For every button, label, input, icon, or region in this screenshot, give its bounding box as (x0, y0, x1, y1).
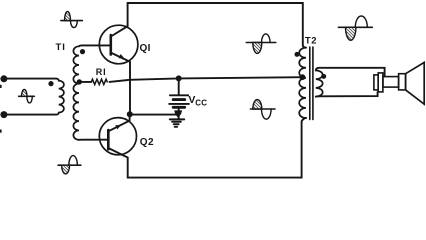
Q1 emitter (111, 53, 130, 114)
waveform W2 (input) baseline (19, 95, 35, 97)
speaker voice coil plate 1 (374, 75, 378, 90)
speaker horn cone (406, 62, 425, 104)
wire VCC node down (178, 78, 180, 95)
waveform W6 (bottom left) baseline (58, 164, 81, 166)
waveform W2 negative half (27, 96, 33, 103)
scan speck left edge lower (0, 130, 2, 133)
emitters junction dot (127, 111, 133, 117)
waveform W4 negative half (hatched) (346, 27, 356, 40)
waveform W1 negative half (71, 21, 78, 28)
transformer T1 primary winding (56, 79, 64, 115)
battery VCC (170, 94, 188, 96)
T1 primary phasing dot (48, 81, 53, 86)
waveform W3 positive half (262, 34, 271, 43)
waveform W5 negative half (262, 109, 272, 119)
waveform W4 positive half (355, 16, 367, 27)
svg-text:RI: RI (96, 67, 107, 77)
Q2 emitter arrow (115, 125, 121, 129)
wire input bottom (4, 114, 56, 116)
transistor Q2 (99, 118, 136, 155)
VCC node junction dot (176, 75, 182, 81)
T1 secondary phasing dot (80, 49, 85, 54)
Q1 collector (111, 3, 128, 37)
Q2 base bar (107, 130, 110, 149)
wire T2 secondary top to speaker (316, 68, 385, 77)
waveform W5 (lower middle) baseline (250, 108, 275, 110)
waveform W1 (top left) baseline (61, 20, 82, 22)
transformer T2 secondary winding (316, 70, 323, 96)
waveform W4 (top right) baseline (338, 26, 372, 28)
Q1 base bar (110, 35, 113, 55)
svg-text:TI: TI (56, 42, 66, 53)
wire emitters to ground node (130, 114, 179, 116)
scan speck left edge upper (0, 85, 2, 88)
wire T2 secondary bottom to speaker (316, 92, 378, 97)
transformer T1 secondary winding (73, 46, 79, 140)
Q1 emitter arrow (119, 54, 125, 58)
battery/ground junction arrow blob (174, 110, 182, 117)
svg-text:QI: QI (140, 43, 151, 54)
top rail wire (Q1 collector to T2) (128, 3, 306, 48)
transistor Q1 (99, 25, 138, 64)
input terminal bottom (0, 111, 7, 118)
speaker magnet bar (383, 77, 399, 88)
T2 primary phasing dot (295, 52, 300, 57)
wire T1 secondary top to Q1 base (79, 44, 111, 47)
waveform W3 (upper middle) baseline (246, 42, 275, 44)
wire tap to R1 (79, 81, 91, 83)
waveform W3 negative half (hatched) (253, 43, 262, 54)
waveform W1 positive half (hatched) (65, 12, 71, 21)
waveform W6 negative half (hatched) (62, 165, 70, 174)
wire R1 to VCC node to T2 tap (110, 77, 303, 82)
T2 secondary phasing dot (321, 74, 326, 79)
Q2 emitter (108, 115, 129, 132)
svg-text:Q2: Q2 (140, 137, 154, 148)
speaker throat (399, 74, 406, 90)
resistor R1 (91, 79, 107, 84)
wire T1 secondary bottom to Q2 base (79, 139, 108, 141)
T1 center tap junction dot (77, 79, 82, 84)
waveform W2 positive half (hatched) (22, 90, 28, 97)
T2 center tap junction dot (300, 74, 306, 80)
T2 core (309, 47, 311, 120)
wire battery to ground (178, 107, 180, 119)
waveform W6 positive half (69, 156, 78, 166)
transformer T2 primary winding (299, 48, 306, 118)
speaker voice coil plate 2 (378, 73, 383, 92)
wire input top (4, 78, 56, 80)
ground (170, 118, 184, 120)
waveform W5 positive half (hatched) (253, 100, 262, 109)
svg-text:T2: T2 (305, 36, 317, 47)
input terminal top (0, 75, 7, 82)
svg-text:CC: CC (195, 99, 207, 108)
Q2 collector (108, 148, 127, 178)
bottom rail wire (Q2 collector to T2) (128, 118, 306, 178)
